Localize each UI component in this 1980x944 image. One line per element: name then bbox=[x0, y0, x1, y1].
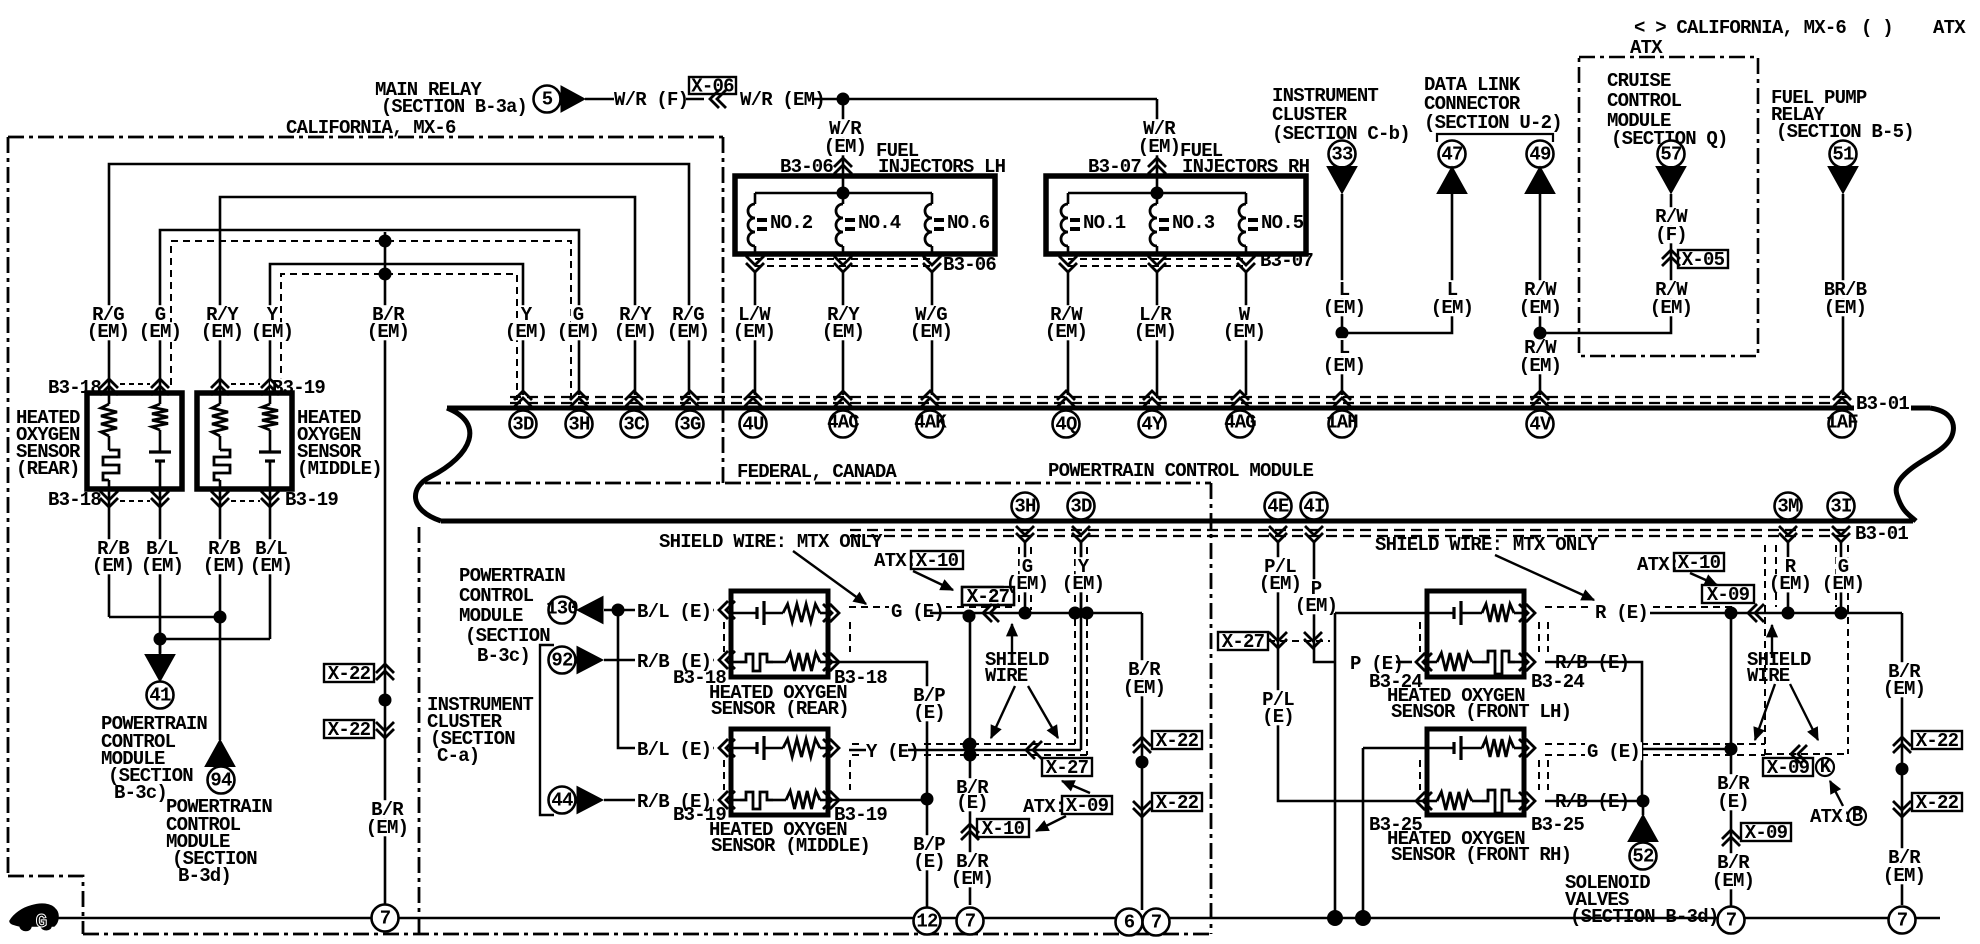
label B/R (EM) right drain bbox=[1715, 853, 1751, 871]
arrow to PCM 94 bbox=[205, 740, 235, 767]
label L (EM) 33 bbox=[1337, 280, 1352, 298]
svg-text:R/B (E): R/B (E) bbox=[637, 651, 711, 673]
junction R/B bbox=[1637, 795, 1650, 808]
svg-text:(EM): (EM) bbox=[1323, 355, 1365, 377]
label G (EM) bbox=[153, 305, 168, 323]
arrow shield mtx bbox=[793, 551, 866, 604]
wire R/W 49 bbox=[1539, 194, 1542, 395]
chevron into middle sensor lower bbox=[719, 791, 735, 809]
svg-text:94: 94 bbox=[210, 769, 232, 791]
svg-text:CONTROL: CONTROL bbox=[459, 585, 534, 607]
pcm right curl bbox=[1896, 408, 1953, 521]
shield dashes middle sensor bbox=[723, 760, 725, 790]
svg-text:(EM): (EM) bbox=[1519, 355, 1561, 377]
chevron X-09 bottom bbox=[1791, 745, 1807, 763]
svg-text:3D: 3D bbox=[512, 413, 534, 435]
svg-text:(EM): (EM) bbox=[614, 321, 656, 343]
chevron X-09 bbox=[1748, 604, 1764, 622]
arrow X-09 to X-27 bbox=[1062, 781, 1090, 793]
chevron into front LH bbox=[1416, 653, 1432, 671]
svg-text:NO.2: NO.2 bbox=[770, 212, 813, 234]
wire middle sensor out bbox=[828, 799, 927, 802]
pcm pin 3D bbox=[514, 391, 532, 407]
arrow 47 bbox=[1437, 167, 1467, 194]
shield dashes front RH bbox=[1419, 760, 1421, 790]
chevrons B3-19 bottom bbox=[211, 491, 229, 507]
wire R/B middle bbox=[219, 489, 222, 617]
svg-text:47: 47 bbox=[1441, 143, 1463, 165]
svg-text:G: G bbox=[36, 911, 47, 933]
arrow X-09 to X-10 bbox=[1036, 816, 1066, 831]
wire L/R bbox=[1156, 272, 1159, 395]
pcm pin 1AF bbox=[1833, 391, 1851, 407]
svg-text:51: 51 bbox=[1832, 143, 1854, 165]
svg-text:(SECTION U-2): (SECTION U-2) bbox=[1424, 112, 1562, 134]
ground circle 7 right bbox=[1718, 907, 1745, 934]
pcm pin 4AK bbox=[921, 391, 939, 407]
svg-text:(EM): (EM) bbox=[822, 321, 864, 343]
connector circle 57 bbox=[1658, 141, 1685, 168]
svg-text:ATX:: ATX: bbox=[1023, 796, 1065, 818]
connector circle 94 bbox=[208, 767, 235, 794]
bracket data link bbox=[1437, 134, 1553, 142]
svg-text:B-3c): B-3c) bbox=[477, 645, 530, 667]
svg-text:NO.6: NO.6 bbox=[947, 212, 990, 234]
svg-text:B3-25: B3-25 bbox=[1531, 814, 1584, 836]
ground circle 12 bbox=[914, 908, 941, 935]
pcm pin 4V bbox=[1531, 391, 1549, 407]
pcm pin 3C bbox=[625, 391, 643, 407]
svg-text:(EM): (EM) bbox=[92, 555, 134, 577]
dash-dot box CALIFORNIA MX-6 left edge bbox=[7, 137, 10, 876]
svg-text:(EM): (EM) bbox=[1223, 321, 1265, 343]
ground symbol bbox=[10, 904, 58, 930]
svg-text:K: K bbox=[1820, 756, 1832, 778]
wire G(E) horizontal bbox=[963, 612, 1142, 615]
arrow B to K bbox=[1830, 781, 1843, 806]
connector X-22 mid upper bbox=[1133, 737, 1151, 753]
svg-text:WIRE: WIRE bbox=[985, 665, 1028, 687]
chevrons B3-19 top bbox=[211, 379, 229, 395]
wire L/W bbox=[754, 272, 757, 395]
bracket instrument cluster bbox=[540, 645, 554, 815]
rear fed resistor bottom bbox=[786, 653, 820, 671]
arrow to solenoid bbox=[1628, 815, 1658, 842]
front LH return wire bbox=[1334, 613, 1337, 918]
svg-text:4U: 4U bbox=[742, 413, 764, 435]
arrow 44 bbox=[577, 787, 603, 814]
wire G(E) right bbox=[1632, 748, 1731, 751]
wire drain left bbox=[1730, 613, 1733, 906]
junction R/W bbox=[1534, 327, 1547, 340]
svg-text:W/R (F): W/R (F) bbox=[614, 89, 688, 111]
svg-text:CONTROL: CONTROL bbox=[1607, 90, 1682, 112]
svg-text:X-09: X-09 bbox=[1066, 795, 1109, 817]
svg-text:92: 92 bbox=[551, 649, 573, 671]
svg-text:X-09: X-09 bbox=[1707, 584, 1750, 606]
svg-text:MODULE: MODULE bbox=[459, 605, 523, 627]
pcm pin 1AH bbox=[1333, 391, 1351, 407]
sensor rear element bbox=[103, 450, 119, 480]
arrow X-10 to X-27 bbox=[913, 571, 953, 590]
chevron P X-27 bbox=[1304, 632, 1322, 648]
label G (EM) below bbox=[1020, 557, 1035, 575]
connector chevron B3-06 bbox=[834, 158, 852, 174]
arrow 49 bbox=[1525, 167, 1555, 194]
front LH resistor bottom bbox=[1427, 661, 1437, 664]
chevron into front RH bbox=[1416, 792, 1432, 810]
label Y (EM) below relabel bbox=[1076, 557, 1091, 575]
svg-text:X-27: X-27 bbox=[967, 586, 1010, 608]
svg-text:(EM): (EM) bbox=[667, 321, 709, 343]
junction G(E) drain bbox=[1725, 743, 1738, 756]
injector coil NO.6 bbox=[925, 204, 932, 246]
svg-text:(EM): (EM) bbox=[250, 555, 292, 577]
pcm pin 4I bottom bbox=[1301, 493, 1328, 520]
rear fed element bbox=[731, 661, 740, 664]
connector circle 49 bbox=[1527, 141, 1554, 168]
junction B/P bbox=[921, 793, 934, 806]
label B/R (EM) mid bbox=[1126, 660, 1162, 678]
svg-text:(EM): (EM) bbox=[1824, 297, 1866, 319]
connector X-27 chevrons bbox=[983, 604, 999, 622]
label R/G (EM) drop bbox=[670, 305, 706, 323]
dash-dot box CALIFORNIA MX-6 bottom jog bbox=[8, 876, 83, 934]
arrow from main relay bbox=[561, 86, 585, 112]
connector X-06 bbox=[710, 90, 726, 108]
wire R/Y bbox=[842, 272, 845, 395]
junction bbox=[837, 93, 850, 106]
internal bus LH bbox=[842, 176, 845, 193]
sensor middle element bbox=[214, 450, 230, 480]
arrow X-10 to X-09 right bbox=[1690, 573, 1717, 585]
label L (EM) 47 bbox=[1445, 280, 1460, 298]
wire Y(E) bbox=[849, 749, 866, 752]
pcm pin 4AC bbox=[834, 391, 852, 407]
wire to solenoid bbox=[1642, 801, 1645, 815]
label R/G (EM) bbox=[90, 305, 126, 323]
wire bbox=[686, 98, 704, 101]
label Y (E) bbox=[864, 742, 921, 760]
svg-text:(EM): (EM) bbox=[1883, 678, 1925, 700]
svg-text:4I: 4I bbox=[1303, 495, 1324, 517]
svg-text:SENSOR (FRONT RH): SENSOR (FRONT RH) bbox=[1391, 844, 1571, 866]
wire R/B front RH bbox=[1545, 800, 1642, 803]
svg-text:SENSOR (FRONT LH): SENSOR (FRONT LH) bbox=[1391, 701, 1571, 723]
svg-text:X-22: X-22 bbox=[1156, 730, 1199, 752]
front LH element bbox=[1472, 661, 1482, 664]
label P (EM) bbox=[1309, 579, 1324, 597]
svg-text:SENSOR (MIDDLE): SENSOR (MIDDLE) bbox=[711, 835, 870, 857]
middle fed element bbox=[731, 799, 740, 802]
svg-text:(EM): (EM) bbox=[1883, 865, 1925, 887]
middle fed cell bbox=[731, 747, 757, 750]
svg-text:3M: 3M bbox=[1777, 495, 1799, 517]
svg-text:44: 44 bbox=[551, 789, 573, 811]
junction bbox=[1725, 607, 1738, 620]
wire BR/B bbox=[1842, 194, 1845, 395]
svg-text:52: 52 bbox=[1632, 845, 1654, 867]
connector X-22 right lower bbox=[1893, 801, 1911, 817]
wire W/G bbox=[931, 272, 934, 395]
svg-text:B3-06: B3-06 bbox=[943, 254, 996, 276]
svg-text:7: 7 bbox=[1897, 909, 1908, 931]
wire B/R mid bbox=[1141, 613, 1144, 910]
pcm pin 3D bottom bbox=[1068, 493, 1095, 520]
wire G elbow bbox=[1024, 542, 1027, 613]
svg-text:(EM): (EM) bbox=[1519, 297, 1561, 319]
svg-text:X-05: X-05 bbox=[1682, 249, 1725, 271]
svg-text:B3-24: B3-24 bbox=[1531, 671, 1584, 693]
svg-text:(EM): (EM) bbox=[1323, 297, 1365, 319]
svg-text:3H: 3H bbox=[568, 413, 590, 435]
wire P/L bbox=[1278, 542, 1427, 801]
chevrons B3-18 bottom bbox=[100, 491, 118, 507]
svg-text:B3-01: B3-01 bbox=[1855, 523, 1908, 545]
dashed connector line bbox=[1268, 640, 1330, 642]
injector coil NO.1 bbox=[1061, 204, 1068, 246]
svg-text:X-27: X-27 bbox=[1046, 757, 1089, 779]
dashed shield routing Y bbox=[281, 274, 517, 400]
wire R/W 57 bbox=[1540, 194, 1671, 333]
label G (E) bbox=[889, 602, 946, 620]
junction bbox=[1081, 607, 1094, 620]
svg-text:7: 7 bbox=[1726, 909, 1737, 931]
dashed R(E) shield bbox=[1545, 606, 1733, 608]
connector X-22 right upper bbox=[1893, 737, 1911, 753]
shield horizontal bbox=[1731, 612, 1902, 615]
label R/Y (EM) drop bbox=[617, 305, 653, 323]
svg-text:B3-07: B3-07 bbox=[1260, 250, 1313, 272]
connector circle 44 bbox=[549, 787, 576, 814]
connector X-22 lower bbox=[324, 720, 374, 738]
wire R/B join bbox=[109, 616, 220, 619]
injector coil NO.3 bbox=[1150, 204, 1157, 246]
svg-text:3I: 3I bbox=[1830, 495, 1851, 517]
label G (EM) drop bbox=[571, 305, 586, 323]
svg-text:X-22: X-22 bbox=[328, 719, 371, 741]
label R/B (EM) bbox=[95, 539, 131, 557]
wire R/B rear bbox=[108, 489, 111, 617]
label B/L (EM) 2 bbox=[253, 539, 289, 557]
wire R/G routing bbox=[109, 164, 689, 395]
label R/B (E) 92 bbox=[635, 652, 713, 670]
label L (EM) below bbox=[1337, 338, 1352, 356]
label B3-01 bottom bbox=[1853, 524, 1910, 542]
fuel injectors LH box bbox=[735, 176, 995, 254]
wire G from 3I bbox=[1840, 542, 1843, 613]
svg-text:3H: 3H bbox=[1014, 495, 1036, 517]
label R (E) bbox=[1593, 603, 1650, 621]
chevron P/L X-27 bbox=[1269, 632, 1287, 648]
connector X-22 upper bbox=[324, 664, 374, 682]
connector circle 51 bbox=[1830, 141, 1857, 168]
heated oxygen sensor middle fed box bbox=[731, 729, 828, 815]
svg-text:(E): (E) bbox=[956, 792, 988, 814]
junction solenoid return bbox=[1327, 910, 1343, 926]
shield dashes rear sensor bbox=[723, 622, 725, 652]
junction bbox=[1019, 607, 1032, 620]
shield chevron X-27 lower bbox=[1026, 741, 1042, 759]
chevrons out front RH bbox=[1519, 739, 1535, 757]
pcm top left curl bbox=[415, 408, 469, 521]
label Y (EM) drop bbox=[519, 305, 534, 323]
svg-text:(EM): (EM) bbox=[1006, 573, 1048, 595]
label B/R (EM) far right 2 bbox=[1886, 848, 1922, 866]
label P/L (E) bbox=[1260, 690, 1296, 708]
svg-text:FEDERAL, CANADA: FEDERAL, CANADA bbox=[737, 461, 897, 483]
pcm pin 3H bbox=[570, 391, 588, 407]
svg-text:B/L (E): B/L (E) bbox=[637, 601, 711, 623]
wire shield drain bbox=[969, 616, 972, 905]
connector X-10 left bbox=[961, 824, 979, 840]
svg-text:(EM): (EM) bbox=[1822, 573, 1864, 595]
middle fed resistor top bbox=[783, 739, 820, 757]
wire R/B rear fed bbox=[604, 659, 714, 662]
svg-text:(EM): (EM) bbox=[1134, 321, 1176, 343]
svg-text:POWERTRAIN CONTROL MODULE: POWERTRAIN CONTROL MODULE bbox=[1048, 460, 1313, 482]
front LH cell bbox=[1427, 612, 1454, 615]
dashed G(E) shield right bbox=[1545, 743, 1765, 745]
svg-text:4E: 4E bbox=[1267, 495, 1289, 517]
connector circle 47 bbox=[1439, 141, 1466, 168]
connector X-27 box bbox=[962, 587, 1014, 605]
svg-text:(REAR): (REAR) bbox=[16, 458, 80, 480]
svg-text:(EM): (EM) bbox=[733, 321, 775, 343]
svg-text:WIRE: WIRE bbox=[1747, 665, 1790, 687]
heated oxygen sensor rear box bbox=[87, 393, 182, 489]
dashed pair above bus bbox=[510, 396, 1848, 398]
label R/Y (EM) bbox=[204, 305, 240, 323]
svg-text:Y (E): Y (E) bbox=[866, 741, 919, 763]
wire to PCM 94 bbox=[219, 617, 222, 740]
svg-text:5: 5 bbox=[542, 88, 553, 110]
chevrons out front LH bbox=[1519, 604, 1535, 622]
svg-text:4Q: 4Q bbox=[1055, 413, 1077, 435]
svg-text:(E): (E) bbox=[913, 851, 945, 873]
svg-text:(SECTION B-3a): (SECTION B-3a) bbox=[381, 96, 527, 118]
svg-text:X-10: X-10 bbox=[1678, 552, 1721, 574]
junction bbox=[1136, 756, 1149, 769]
wire B/L middle bbox=[269, 489, 272, 639]
pcm pin 4AG bbox=[1231, 391, 1249, 407]
chevron into rear sensor bbox=[719, 601, 735, 619]
svg-text:G (E): G (E) bbox=[1587, 741, 1640, 763]
svg-text:B3-01: B3-01 bbox=[1856, 393, 1909, 415]
junction bbox=[963, 739, 976, 752]
heated oxygen sensor front LH box bbox=[1427, 591, 1524, 677]
svg-text:X-22: X-22 bbox=[328, 663, 371, 685]
ground circle 6 bbox=[1116, 909, 1143, 936]
junction bbox=[379, 268, 392, 281]
dashed pair below RH box bbox=[1068, 258, 1246, 260]
svg-text:6: 6 bbox=[1124, 911, 1135, 933]
label B/R (EM) far right bbox=[1886, 662, 1922, 680]
ground circle 7 mid2 bbox=[1143, 909, 1170, 936]
wire Y routing bbox=[270, 264, 523, 395]
front RH cell bbox=[1427, 747, 1454, 750]
wire R from 3M bbox=[1787, 542, 1790, 613]
svg-text:(EM): (EM) bbox=[1431, 297, 1473, 319]
svg-text:7: 7 bbox=[1151, 911, 1162, 933]
label R/W (EM) 57 bbox=[1653, 280, 1689, 298]
front LH resistor top bbox=[1482, 604, 1514, 622]
svg-text:(EM): (EM) bbox=[1123, 677, 1165, 699]
wire G(E) bbox=[930, 612, 963, 615]
wire W/R bbox=[585, 98, 614, 101]
wire B/L join bbox=[160, 638, 270, 641]
shield dashed pair Y bbox=[852, 743, 1075, 745]
svg-text:1AH: 1AH bbox=[1326, 412, 1358, 434]
svg-text:(E): (E) bbox=[913, 702, 945, 724]
junction bbox=[1069, 607, 1082, 620]
sensor middle cell resistor bbox=[269, 393, 272, 404]
label BR/B (EM) bbox=[1822, 280, 1868, 298]
label R/B (E) front LH bbox=[1553, 653, 1631, 671]
svg-text:NO.5: NO.5 bbox=[1261, 212, 1304, 234]
svg-text:(EM): (EM) bbox=[366, 817, 408, 839]
svg-text:(E): (E) bbox=[1717, 791, 1749, 813]
svg-text:B-3c): B-3c) bbox=[114, 782, 167, 804]
wire R/Y routing bbox=[220, 197, 635, 395]
label B/P (E) 2 bbox=[911, 835, 947, 853]
svg-text:X-22: X-22 bbox=[1156, 792, 1199, 814]
wire W/R to injectors bbox=[812, 98, 1157, 101]
junction bbox=[963, 610, 976, 623]
svg-text:X-22: X-22 bbox=[1916, 792, 1959, 814]
svg-text:41: 41 bbox=[149, 684, 171, 706]
pcm pin 3I bottom bbox=[1828, 493, 1855, 520]
shield dashed box right bbox=[1764, 545, 1766, 754]
svg-text:7: 7 bbox=[380, 907, 391, 929]
svg-text:(EM): (EM) bbox=[1712, 870, 1754, 892]
ground circle 7 far right bbox=[1889, 907, 1916, 934]
heated oxygen sensor middle box bbox=[197, 393, 292, 489]
svg-text:49: 49 bbox=[1529, 143, 1551, 165]
heated oxygen sensor rear fed box bbox=[731, 591, 828, 677]
label B/R (EM) drain bbox=[954, 852, 990, 870]
arrow 57 bbox=[1656, 167, 1686, 194]
label B/R (EM) lower bbox=[369, 800, 405, 818]
wire P bbox=[1314, 542, 1335, 662]
powertrain control module top line bbox=[447, 406, 1930, 411]
dash-dot bottom border bbox=[83, 933, 1211, 936]
svg-text:(SECTION: (SECTION bbox=[465, 625, 550, 647]
label R/B (E) front RH bbox=[1553, 792, 1631, 810]
dashed pair below bus bbox=[850, 529, 1852, 531]
svg-text:3C: 3C bbox=[623, 413, 645, 435]
svg-text:4AK: 4AK bbox=[914, 412, 947, 434]
label B/R (EM) bbox=[370, 305, 406, 323]
dash-dot box FEDERAL CANADA top edge bbox=[425, 482, 1211, 485]
middle fed resistor bottom bbox=[786, 791, 820, 809]
svg-text:(EM): (EM) bbox=[1259, 573, 1301, 595]
junction shield 2 bbox=[964, 749, 977, 762]
label W/R (EM) vertical LH bbox=[827, 119, 863, 137]
fuel injectors RH box bbox=[1046, 176, 1306, 254]
junction bbox=[379, 235, 392, 248]
shield dashes G wire bbox=[1018, 547, 1020, 604]
wire R(E) bbox=[1640, 612, 1731, 615]
wire L bbox=[1341, 194, 1344, 395]
svg-text:ATX:: ATX: bbox=[1810, 806, 1852, 828]
chevrons below LH box bbox=[746, 256, 764, 272]
chevrons out middle sensor bbox=[823, 739, 839, 757]
dashed G(E) shield bbox=[849, 606, 1014, 608]
label B/P (E) bbox=[911, 686, 947, 704]
dashed pair below LH box bbox=[755, 258, 932, 260]
svg-text:R (E): R (E) bbox=[1595, 602, 1648, 624]
